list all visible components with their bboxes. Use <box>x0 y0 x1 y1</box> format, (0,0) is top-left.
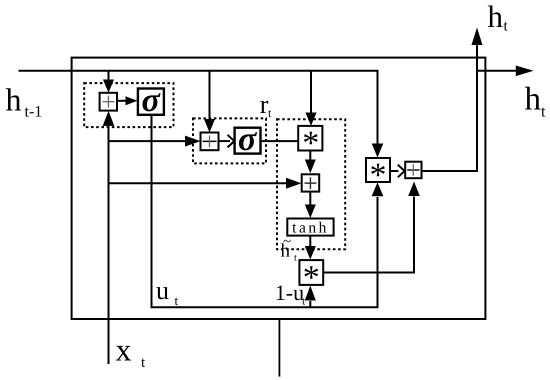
box plus3 <box>302 174 320 191</box>
svg-text:h: h <box>6 82 22 118</box>
svg-text:*: * <box>370 157 387 194</box>
box U-star right <box>366 158 390 182</box>
arrowhead into plus3 top <box>305 160 316 174</box>
open arrowhead into sigma2 left <box>228 135 235 148</box>
arrowhead into plus2 left <box>185 136 201 147</box>
wire u(t): sigma1 output down, across bottom, up into U* bottom <box>152 115 378 307</box>
arrowhead h(t) right <box>516 66 534 77</box>
wire U* to plus-right <box>390 170 399 172</box>
wire star-bottom output right and up into plus-right bottom <box>323 197 414 273</box>
svg-text:t-1: t-1 <box>25 104 43 121</box>
wire h(t-1) main line with turn down to U* <box>19 71 378 145</box>
arrowhead into U* top <box>372 144 384 158</box>
wire bottom second input line <box>278 319 280 377</box>
arrowhead into plus1 top <box>103 80 114 93</box>
arrowhead into star-bottom top <box>305 246 316 260</box>
svg-text:t: t <box>302 296 305 308</box>
arrowhead into plus2 top <box>204 119 215 133</box>
box sigma1 <box>138 89 164 115</box>
arrowhead into star1 top <box>306 113 317 126</box>
svg-text:σ: σ <box>238 121 258 158</box>
svg-text:h: h <box>488 0 504 34</box>
wire plus1 to sigma1 <box>117 100 127 102</box>
arrowhead into plus-right bottom <box>408 182 420 197</box>
box plus2 <box>201 133 219 151</box>
wire h branch down to plus2 <box>209 71 211 120</box>
svg-text:t: t <box>175 293 179 308</box>
arrowhead into sigma1 left <box>126 96 138 105</box>
dotted box candidate (tanh group) <box>277 119 345 249</box>
arrowhead into U* bottom <box>372 182 384 196</box>
box star-bottom <box>299 260 323 285</box>
svg-text:h: h <box>525 82 542 118</box>
box star1 <box>298 126 322 151</box>
svg-text:1-u: 1-u <box>275 280 304 305</box>
outer cell box <box>72 58 486 319</box>
box plus-right <box>405 162 421 179</box>
arrowhead into tanh top <box>305 205 316 219</box>
box plus1 <box>100 93 117 111</box>
svg-text:*: * <box>303 260 320 297</box>
dotted box reset gate (sigma2 group) <box>193 118 266 163</box>
wire x(t) vertical input <box>108 126 110 364</box>
svg-text:σ: σ <box>142 82 162 119</box>
wire h branch down to plus1 <box>108 71 110 80</box>
arrowhead h(t) up <box>472 28 483 46</box>
arrowhead into star-bottom bottom <box>305 286 316 301</box>
svg-text:x: x <box>116 331 132 367</box>
wire plus2 to sigma2 <box>219 140 231 142</box>
box sigma2 <box>235 128 261 154</box>
wire x branch to plus3 <box>109 182 288 184</box>
svg-text:u: u <box>156 276 169 305</box>
wire x branch to plus2 <box>109 140 187 142</box>
wire plus-right output right then up to h(t) top <box>422 45 478 171</box>
svg-text:*: * <box>302 125 319 162</box>
wire sigma2 output to star1 left <box>261 140 299 142</box>
arrowhead into plus3 left <box>286 178 302 189</box>
svg-text:t: t <box>541 104 546 121</box>
svg-text:tanh: tanh <box>292 219 329 236</box>
arrowhead into plus1 bottom <box>103 111 115 126</box>
wire plus3 to tanh <box>309 192 311 205</box>
open arrowhead into plus-right left <box>398 165 405 178</box>
box tanh <box>287 219 333 236</box>
wire h(t) output right <box>477 70 517 72</box>
wire tanh to star-bottom <box>309 236 311 247</box>
svg-text:~: ~ <box>283 234 291 250</box>
svg-text:t: t <box>294 253 297 264</box>
wire star1 to plus3 <box>309 151 311 161</box>
wire 1-u(t) up into star-bottom <box>309 301 311 307</box>
dotted box update gate (sigma1 group) <box>84 83 173 127</box>
wire h branch down to star1 <box>310 71 312 113</box>
